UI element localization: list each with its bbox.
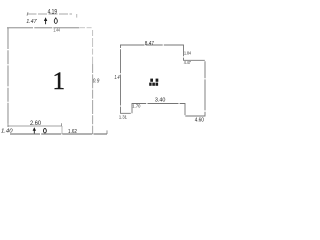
left room bottom wall <box>10 133 107 135</box>
svg-text:3.40: 3.40 <box>155 97 166 103</box>
bottom dimension left tick <box>7 124 9 126</box>
svg-text:1.62: 1.62 <box>68 129 77 135</box>
left room: top dimension left tick <box>27 12 28 15</box>
svg-text:1.4: 1.4 <box>114 75 119 81</box>
svg-text:1.31: 1.31 <box>119 115 127 120</box>
left room top wall <box>7 27 80 29</box>
bottom wall right end tick <box>106 130 108 134</box>
room label text line 2 (three CJK-like blobs) <box>149 83 151 86</box>
step line at x=62 <box>61 126 63 134</box>
window mark bottom (circle glyph) <box>44 129 47 133</box>
svg-text:1.84: 1.84 <box>184 51 192 56</box>
left room left wall <box>7 28 9 127</box>
left room: top dimension line <box>28 13 73 15</box>
right room outline <box>121 45 206 116</box>
room label text line 1 (two CJK-like blobs) <box>150 79 153 82</box>
svg-text:1.40: 1.40 <box>1 129 13 135</box>
door mark (arrow glyph) <box>44 17 47 21</box>
door mark bottom (arrow glyph) <box>33 127 36 131</box>
svg-text:1.47: 1.47 <box>26 19 37 25</box>
svg-text:1: 1 <box>53 68 66 95</box>
svg-text:1.44: 1.44 <box>53 28 60 33</box>
svg-text:4.47: 4.47 <box>184 60 191 65</box>
bottom dimension line 2.60 <box>8 125 62 127</box>
svg-text:2.60: 2.60 <box>30 121 42 127</box>
left room: top dimension right tick <box>76 14 78 18</box>
svg-text:8.47: 8.47 <box>145 41 154 47</box>
window mark (circle glyph) <box>54 19 57 24</box>
left room right wall <box>92 30 94 64</box>
svg-text:0.9: 0.9 <box>93 78 100 84</box>
svg-text:1.70: 1.70 <box>132 103 140 108</box>
bottom dimension right tick <box>61 123 63 126</box>
svg-text:4.19: 4.19 <box>48 10 58 16</box>
svg-text:4.60: 4.60 <box>195 117 204 123</box>
